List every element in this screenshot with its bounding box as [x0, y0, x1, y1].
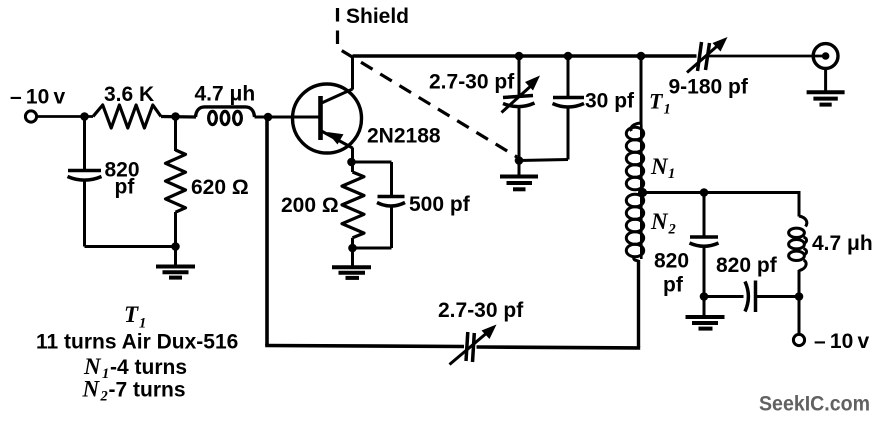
capacitor C2 500 pf	[352, 162, 471, 248]
svg-text:1: 1	[668, 166, 675, 182]
transformer T1 winding	[626, 56, 643, 347]
wire input to junction	[37, 115, 93, 118]
notes text block	[36, 302, 238, 405]
ground G1	[156, 247, 195, 278]
node J junction dot	[515, 156, 524, 165]
resistor R3 200 ohm	[281, 172, 364, 248]
svg-text:2N2188: 2N2188	[367, 125, 441, 148]
ground G4	[807, 68, 845, 104]
svg-text:2.7-30 pf: 2.7-30 pf	[438, 299, 524, 322]
wire cap bottom to ground node	[85, 245, 176, 248]
label T1 top	[649, 89, 671, 118]
svg-text:T: T	[649, 89, 664, 114]
svg-text:2: 2	[668, 222, 676, 238]
node D junction dot	[171, 242, 180, 251]
node A junction dot	[80, 112, 89, 121]
svg-text:820 pf: 820 pf	[716, 254, 778, 277]
node K tap junction dot	[638, 188, 647, 197]
svg-text:820: 820	[654, 250, 689, 273]
svg-text:2.7-30 pf: 2.7-30 pf	[429, 71, 515, 94]
node F junction dot	[348, 244, 357, 253]
ground G2	[332, 248, 371, 278]
terminal -10v right	[793, 297, 869, 354]
svg-text:4.7 μh: 4.7 μh	[195, 83, 256, 106]
node B junction dot	[171, 112, 180, 121]
svg-text:-4 turns: -4 turns	[110, 356, 187, 379]
svg-text:SeekIC.com: SeekIC.com	[759, 393, 870, 416]
svg-text:500 pf: 500 pf	[409, 193, 471, 216]
svg-text:3.6 K: 3.6 K	[104, 83, 154, 106]
capacitor C1 820 pf	[68, 117, 140, 247]
svg-text:N: N	[650, 154, 669, 179]
svg-text:– 10 v: – 10 v	[814, 330, 869, 353]
resistor R1 3.6K	[93, 83, 161, 128]
svg-text:2: 2	[100, 389, 108, 405]
svg-text:30 pf: 30 pf	[585, 90, 635, 113]
top rail wire	[353, 54, 697, 58]
node I junction dot	[637, 52, 646, 61]
feedback wire bottom right segment	[477, 347, 641, 348]
svg-text:200 Ω: 200 Ω	[281, 194, 339, 217]
terminal -10v left	[10, 86, 65, 123]
node E junction dot (emitter)	[347, 158, 356, 167]
resistor R2 620 ohm	[166, 117, 249, 247]
svg-text:T: T	[124, 302, 139, 327]
node H junction dot	[564, 52, 573, 61]
rail right of C5	[707, 55, 825, 58]
wire resistor to inductor	[161, 115, 196, 119]
wire collector to rail	[351, 56, 354, 90]
node C junction dot (base/feedback)	[264, 113, 273, 122]
node N junction dot	[795, 292, 804, 301]
svg-text:1: 1	[139, 316, 146, 332]
transistor Q1 2N2188	[293, 84, 441, 153]
svg-text:620 Ω: 620 Ω	[191, 176, 249, 199]
node M junction dot	[700, 292, 709, 301]
svg-text:4.7 μh: 4.7 μh	[812, 232, 873, 255]
svg-text:N: N	[650, 209, 669, 234]
variable capacitor C5 9-180 pf	[669, 37, 749, 99]
inductor L1 4.7uh	[195, 83, 256, 125]
shield dashed lead	[338, 5, 518, 157]
node G junction dot	[515, 52, 524, 61]
variable capacitor C8 2.7-30 pf bottom	[438, 299, 524, 365]
capacitor C7 820 pf horizontal	[704, 254, 799, 312]
svg-text:-7 turns: -7 turns	[109, 379, 186, 402]
svg-text:– 10 v: – 10 v	[10, 86, 65, 109]
capacitor C6 820 pf vertical	[654, 193, 719, 297]
ground G5	[686, 297, 725, 329]
capacitor C4 30 pf	[519, 56, 635, 161]
label N2	[650, 209, 676, 238]
wire tap to right branch	[642, 193, 799, 217]
svg-text:pf: pf	[663, 274, 684, 297]
output connector	[813, 44, 838, 69]
svg-text:1: 1	[664, 102, 671, 118]
node L junction dot	[700, 188, 709, 197]
svg-text:N: N	[82, 377, 101, 402]
wire inductor to base	[255, 116, 321, 119]
variable capacitor C3 2.7-30 pf	[429, 56, 540, 161]
wire emitter down	[351, 148, 354, 173]
feedback wire bottom left segment	[265, 346, 464, 347]
label N1	[650, 154, 675, 182]
svg-text:11 turns Air Dux-516: 11 turns Air Dux-516	[36, 331, 238, 354]
svg-text:9-180 pf: 9-180 pf	[669, 76, 749, 99]
svg-text:Shield: Shield	[346, 5, 409, 28]
ground G3	[500, 161, 538, 190]
inductor L2 4.7uh	[789, 216, 873, 297]
svg-text:pf: pf	[115, 176, 136, 199]
feedback wire left vertical	[265, 117, 269, 346]
svg-text:N: N	[83, 354, 102, 379]
